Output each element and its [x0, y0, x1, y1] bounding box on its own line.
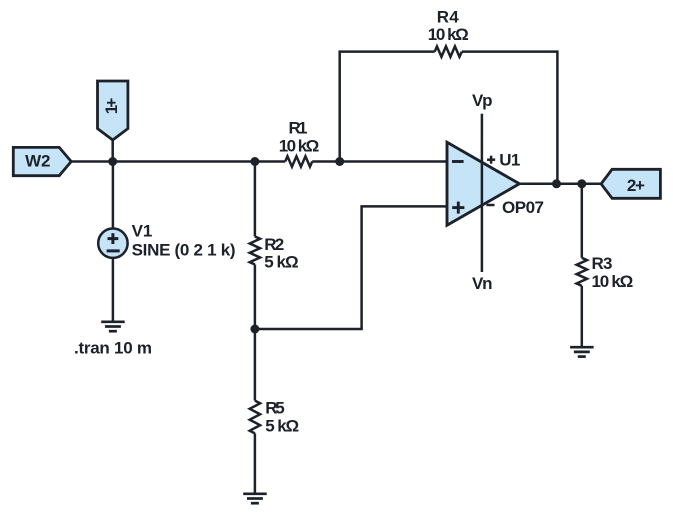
svg-text:5 kΩ: 5 kΩ [265, 417, 299, 436]
voltage source V1 circle [98, 229, 127, 258]
svg-text:.tran 10 m: .tran 10 m [74, 339, 152, 358]
op-amp U1 triangle [447, 142, 519, 225]
svg-text:SINE (0 2 1 k): SINE (0 2 1 k) [132, 240, 236, 259]
svg-text:Vn: Vn [472, 274, 493, 293]
svg-text:R4: R4 [437, 8, 460, 27]
wire: op-amp output to 2+ tag [519, 183, 601, 186]
divider node junction dot [250, 325, 259, 334]
svg-text:10 kΩ: 10 kΩ [428, 25, 469, 44]
V1 minus sign [107, 249, 120, 252]
tag 2+ (output) [601, 169, 660, 198]
wire: output node down to R3 top [581, 184, 584, 258]
op-amp inverting input minus mark [452, 160, 464, 163]
resistor R3 10k zigzag [577, 258, 587, 286]
op-amp power rail line (Vp to Vn through body) [481, 143, 484, 273]
wire: divider node to corner [255, 206, 447, 329]
svg-text:R5: R5 [265, 399, 285, 418]
tag W2 [13, 147, 71, 175]
output node junction dot (feedback) [552, 179, 561, 188]
svg-text:R1: R1 [289, 118, 308, 137]
svg-text:R3: R3 [592, 254, 613, 273]
svg-text:R2: R2 [264, 235, 284, 254]
wire: R1 right to op-amp inverting input [312, 160, 447, 163]
svg-text:10 kΩ: 10 kΩ [592, 272, 634, 291]
svg-text:5 kΩ: 5 kΩ [264, 253, 299, 272]
resistor R2 5k zigzag [250, 237, 260, 265]
wire: 1+ probe stem [111, 140, 114, 162]
svg-text:U1: U1 [499, 151, 520, 170]
resistor R5 5k zigzag [250, 401, 260, 434]
wire: V1 bottom to ground [112, 258, 115, 322]
node A2 junction dot (R2 branch) [250, 157, 259, 166]
wire: node A2 down to R2 top [254, 162, 257, 237]
svg-text:10 kΩ: 10 kΩ [279, 137, 320, 156]
svg-text:OP07: OP07 [502, 198, 544, 217]
supply minus mark (Vn pin) [486, 204, 494, 207]
svg-text:1+: 1+ [102, 98, 121, 115]
wire: Vp stem into op-amp [481, 114, 484, 143]
resistor R4 10k zigzag [435, 46, 462, 56]
wire: W2 to node A [71, 160, 113, 163]
wire: divider node down to R5 top [254, 329, 257, 401]
ground under V1 [101, 322, 125, 331]
wire: R5 bottom to ground [254, 433, 257, 493]
svg-text:W2: W2 [25, 152, 50, 171]
node A junction dot [108, 157, 117, 166]
wire: feedback left vertical up from node B [340, 52, 435, 162]
supply plus mark (Vp pin) [487, 156, 495, 164]
ground under R5 [243, 494, 267, 503]
op-amp non-inverting input plus mark [452, 202, 464, 214]
ground under R3 [570, 347, 594, 356]
resistor R1 10k zigzag [285, 156, 312, 166]
output node junction dot (R3 branch) [577, 179, 586, 188]
V1 plus sign [108, 233, 119, 244]
svg-text:Vp: Vp [472, 91, 493, 110]
wire: R3 bottom to ground [581, 286, 584, 347]
svg-text:V1: V1 [132, 222, 153, 241]
tag 1+ (scope probe) [98, 81, 128, 140]
svg-text:2+: 2+ [627, 176, 645, 195]
node B junction dot (feedback branch) [335, 157, 344, 166]
wire: node A to R1 left [113, 160, 286, 163]
wire: R2 bottom to divider node [254, 265, 257, 330]
wire: feedback top right segment [462, 52, 558, 184]
wire: node A down to V1 top [112, 162, 115, 229]
